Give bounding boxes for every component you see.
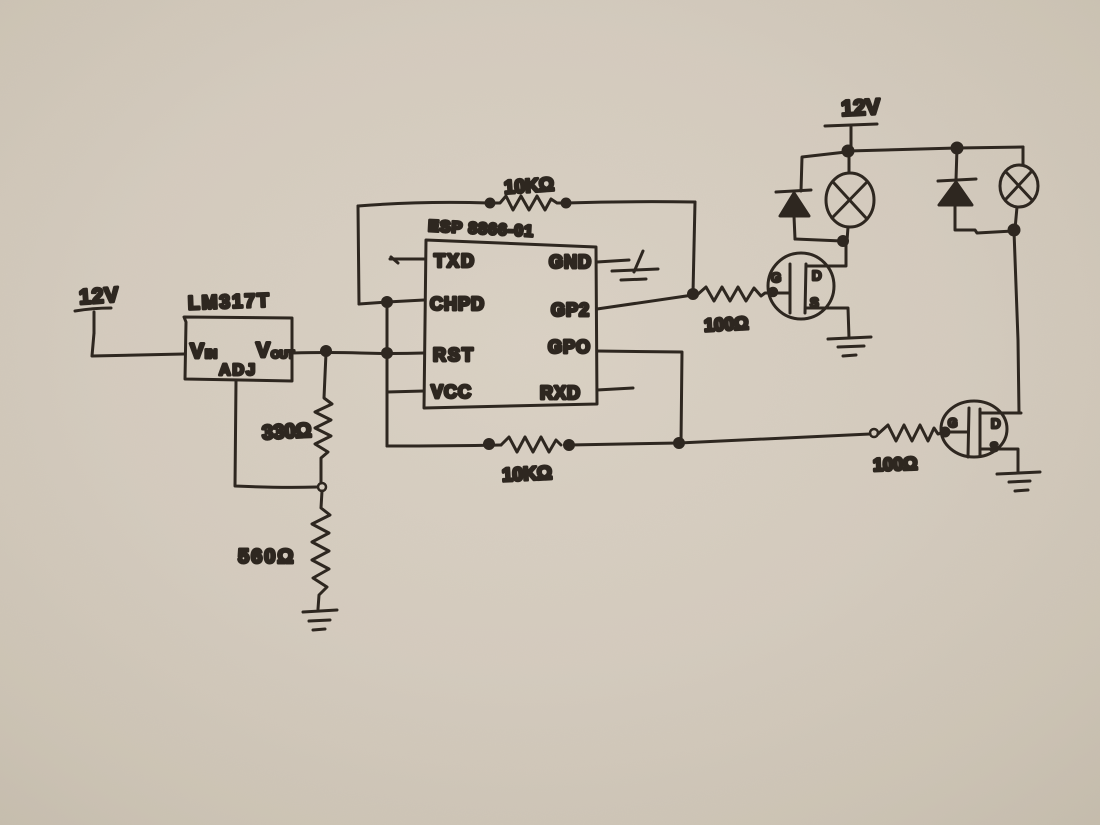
ground (Q2 source) <box>997 472 1040 491</box>
node VOUT junction <box>322 347 331 356</box>
svg-text:100Ω: 100Ω <box>873 453 918 475</box>
svg-text:RST: RST <box>433 345 475 365</box>
node R4 right <box>565 441 574 450</box>
svg-text:ADJ: ADJ <box>219 362 257 379</box>
node R4 left <box>485 440 494 449</box>
svg-text:V: V <box>190 340 204 363</box>
svg-text:RXD: RXD <box>540 383 581 403</box>
wire left vertical of top loop <box>358 206 359 304</box>
ground (below R2) <box>303 610 337 630</box>
node R3 left <box>486 199 494 207</box>
node D2/lamp2 junction <box>1009 225 1019 235</box>
node GPO junction <box>675 439 684 448</box>
wire VCC stub <box>387 391 424 392</box>
wire GP2 to gate resistor <box>597 295 693 309</box>
wire lamp2 junction to Q2 drain <box>1014 231 1019 413</box>
IC U2 ESP8866-01 body <box>424 240 597 408</box>
node RST junction <box>383 349 392 358</box>
svg-text:OUT: OUT <box>271 349 295 361</box>
12V supply label (left) <box>75 283 120 333</box>
lamp LP1 <box>826 151 874 241</box>
resistor R2 560 ohm <box>238 491 330 609</box>
resistor R1 330 ohm <box>262 353 332 483</box>
svg-text:S: S <box>810 295 819 310</box>
wire D2 anode to lamp2 junction <box>955 230 1013 233</box>
transistor Q1 (MOSFET) <box>768 243 849 338</box>
resistor R6 100 ohm <box>870 425 968 475</box>
node R3 right <box>562 199 570 207</box>
wire D1 anode to Q1 drain junction <box>795 239 842 241</box>
wire 12V to VIN <box>92 333 184 356</box>
svg-text:V: V <box>256 339 270 362</box>
svg-text:GPO: GPO <box>548 337 591 357</box>
svg-text:VCC: VCC <box>431 382 472 402</box>
node 12V top junction <box>843 146 853 156</box>
svg-text:D: D <box>991 416 1000 431</box>
svg-text:560Ω: 560Ω <box>238 546 295 568</box>
resistor R4 10K ohm (bottom) <box>501 437 561 486</box>
wire ADJ <box>235 381 317 487</box>
node Q2 gate <box>941 428 949 436</box>
svg-text:12V: 12V <box>78 283 120 309</box>
12V supply label (right) <box>825 94 881 149</box>
svg-text:D: D <box>812 268 821 283</box>
node CHPD junction <box>383 298 392 307</box>
wire CHPD to left loop <box>359 300 424 304</box>
node ADJ/divider junction <box>318 483 326 491</box>
wire RXD stub <box>597 388 633 390</box>
svg-text:100Ω: 100Ω <box>704 313 749 335</box>
svg-text:330Ω: 330Ω <box>262 420 312 445</box>
svg-text:GP2: GP2 <box>551 300 590 320</box>
node rail/diode2 junction <box>952 143 962 153</box>
node D1/lamp1/drain junction <box>839 237 848 246</box>
wire GND pin to ground <box>597 260 629 262</box>
lamp LP2 <box>1000 165 1038 229</box>
svg-text:G: G <box>948 416 957 430</box>
wire bottom loop left segment <box>387 445 501 446</box>
node Q1 gate <box>769 288 777 296</box>
ground (ESP GND) <box>612 251 658 280</box>
svg-text:CHPD: CHPD <box>430 294 485 314</box>
wire top loop left segment <box>358 202 489 206</box>
wire TXD stub with hook <box>390 257 424 263</box>
resistor R3 10K ohm (top) <box>489 174 566 210</box>
wire top loop right segment <box>566 202 695 203</box>
svg-text:S: S <box>990 440 998 454</box>
wire rail corner to lamp2 <box>1022 147 1025 165</box>
diode D2 <box>938 148 976 229</box>
svg-text:10KΩ: 10KΩ <box>502 463 553 487</box>
svg-text:12V: 12V <box>840 94 881 121</box>
wire GPO to bottom loop <box>597 351 682 443</box>
svg-text:LM317T: LM317T <box>188 290 271 314</box>
wire bottom loop right segment <box>569 434 870 445</box>
regulator U1 LM317T body <box>184 317 292 381</box>
resistor R5 100 ohm <box>697 287 790 335</box>
svg-text:TXD: TXD <box>434 251 476 271</box>
svg-text:G: G <box>771 270 781 285</box>
node GP2/loop junction <box>689 290 698 299</box>
ground (Q1 source) <box>828 337 871 356</box>
svg-text:GND: GND <box>549 252 592 272</box>
wire 12V rail right <box>848 147 1023 151</box>
svg-text:10KΩ: 10KΩ <box>503 174 554 198</box>
svg-text:IN: IN <box>205 347 217 361</box>
diode D1 <box>776 190 811 239</box>
pin label VOUT <box>256 339 295 362</box>
wire right vertical of top loop <box>693 202 695 293</box>
wire left vertical x387 (CHPD to bottom loop) <box>386 302 389 446</box>
transistor Q2 (MOSFET) <box>941 401 1021 473</box>
wire rail to diode D1 <box>801 152 846 191</box>
wire VOUT to RST <box>292 353 424 354</box>
pin label VIN <box>190 340 217 363</box>
